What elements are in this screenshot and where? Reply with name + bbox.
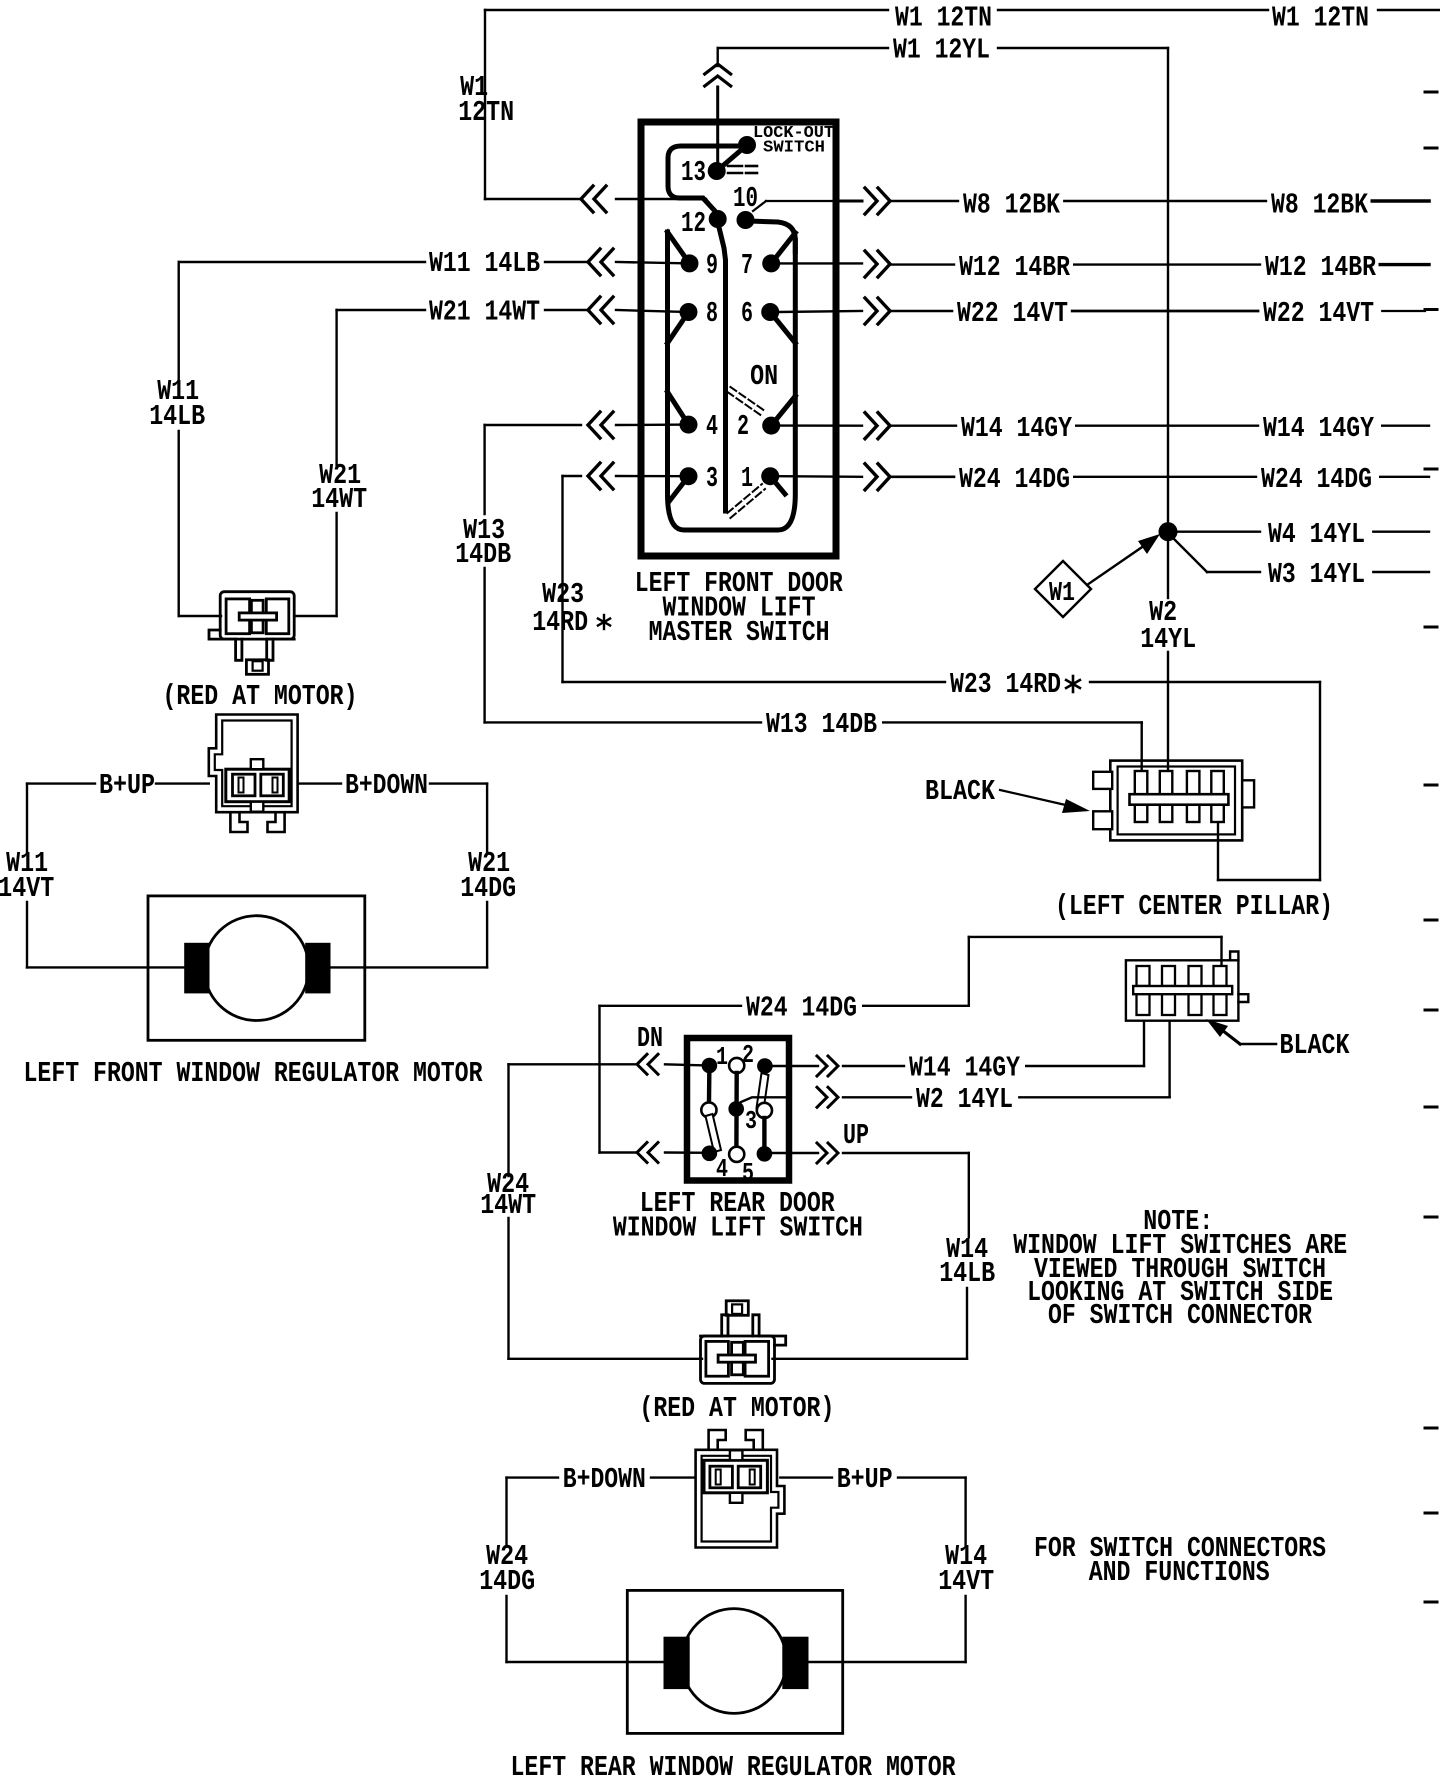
trace pin12 down middle divider	[718, 222, 726, 511]
wire row pin8 into switch	[616, 310, 689, 312]
note text block	[1013, 1205, 1347, 1332]
pin 4	[668, 392, 719, 443]
svg-text:W2 14YL: W2 14YL	[916, 1083, 1013, 1116]
svg-text:DN: DN	[637, 1022, 663, 1055]
wire B+DOWN	[300, 769, 487, 802]
svg-text:BLACK: BLACK	[1280, 1029, 1350, 1062]
wire W22 14VT row pin6	[779, 297, 1425, 330]
svg-text:4: 4	[706, 410, 718, 443]
connector C1 red at motor (front)	[209, 592, 294, 675]
wire W23 14RD*	[563, 463, 1321, 880]
svg-text:W8 12BK: W8 12BK	[1271, 189, 1368, 222]
lock-out switch	[717, 124, 834, 171]
racetrack left trace	[668, 232, 796, 530]
svg-text:W1 12TN: W1 12TN	[1272, 2, 1369, 35]
pin 6	[741, 297, 795, 343]
wire W24 14DG rear	[600, 937, 1222, 1153]
label DN	[637, 1022, 663, 1055]
rear pin 2	[729, 1040, 773, 1074]
caption red at motor (front)	[163, 680, 358, 713]
svg-text:1: 1	[716, 1042, 728, 1072]
svg-text:W22 14VT: W22 14VT	[957, 297, 1068, 330]
connector arrow >> rear UP	[817, 1143, 838, 1163]
wire W14 14VT vertical rear	[808, 1478, 966, 1662]
svg-text:12: 12	[681, 207, 706, 240]
svg-text:W1 12YL: W1 12YL	[893, 34, 990, 67]
svg-text:14LB: 14LB	[939, 1257, 995, 1290]
label W2 14YL	[1140, 596, 1196, 656]
label W24 14WT vertical	[480, 1168, 536, 1222]
pin 9	[668, 232, 719, 282]
rear pin 3	[745, 1103, 772, 1162]
trace pin13 loop to pin12	[668, 146, 740, 214]
svg-text:W8 12BK: W8 12BK	[963, 189, 1060, 222]
svg-text:4: 4	[716, 1154, 728, 1184]
connector arrow >> rear row1	[817, 1056, 838, 1076]
wire rear row1 out	[772, 1065, 818, 1067]
svg-text:AND FUNCTIONS: AND FUNCTIONS	[1089, 1556, 1270, 1589]
connector C6 B+ (rear)	[696, 1430, 785, 1548]
svg-text:14VT: 14VT	[938, 1565, 994, 1598]
connector C3 left center pillar	[1093, 761, 1254, 841]
motor M2 left rear window regulator	[627, 1590, 842, 1733]
svg-text:W11 14LB: W11 14LB	[429, 247, 540, 280]
svg-text:W14 14GY: W14 14GY	[961, 412, 1072, 445]
label W1 12TN vertical	[458, 71, 514, 129]
wire trunk W2 down right side	[1167, 48, 1169, 778]
pin 1	[741, 462, 785, 495]
rear bar pin1-down	[701, 1066, 716, 1118]
wire W3 14YL	[1173, 538, 1429, 591]
pin 7	[741, 233, 795, 282]
lock-out contact marks	[728, 166, 757, 173]
wire W24 14DG vertical rear	[507, 1478, 665, 1662]
caption left rear window regulator motor	[511, 1751, 956, 1782]
wire B+UP rear	[780, 1463, 965, 1496]
svg-text:8: 8	[706, 297, 718, 330]
wire pin10 to W8	[753, 201, 839, 211]
wire break chevrons	[705, 64, 731, 86]
svg-text:14VT: 14VT	[0, 872, 54, 905]
wire into rear pin4	[665, 1151, 709, 1154]
svg-text:2: 2	[737, 410, 749, 443]
wire W2 inside rear switch	[741, 1097, 789, 1102]
wire W21 vertical	[294, 310, 336, 616]
label W23 14RD* vertical	[532, 578, 610, 639]
svg-text:3: 3	[706, 462, 718, 495]
wire W2 14YL rear	[843, 1021, 1170, 1116]
wire into rear pin1	[665, 1064, 709, 1065]
connector arrow << rear row1	[637, 1054, 658, 1074]
rear pin 1	[702, 1042, 728, 1073]
svg-text:SWITCH: SWITCH	[763, 139, 825, 158]
wire W14 14GY row pin2	[780, 412, 1429, 445]
label W21 14DG vertical	[460, 847, 516, 905]
pin 3	[669, 462, 718, 502]
svg-text:(RED AT MOTOR): (RED AT MOTOR)	[639, 1392, 834, 1425]
caption left front window regulator motor	[24, 1057, 483, 1090]
arrow W1 diamond to junction	[1087, 534, 1160, 585]
connector arrow << rear row4	[637, 1143, 658, 1163]
svg-text:W3 14YL: W3 14YL	[1268, 558, 1365, 591]
caption left center pillar	[1055, 890, 1333, 923]
pin 8	[668, 297, 719, 343]
rear bar pin2-down	[728, 1073, 754, 1188]
wire W1 12TN	[485, 2, 1440, 200]
pin 12	[681, 207, 727, 240]
caption rear switch	[613, 1187, 863, 1245]
label W13 14DB vertical	[455, 514, 511, 571]
svg-text:14WT: 14WT	[480, 1189, 536, 1222]
pin 10	[733, 182, 758, 229]
wire W4 14YL	[1177, 518, 1429, 551]
svg-text:W14 14GY: W14 14GY	[1263, 412, 1374, 445]
wire W24 14WT	[509, 1064, 703, 1359]
connector arrow >> rear W2	[817, 1087, 838, 1107]
label W11 14VT vertical	[0, 847, 54, 905]
rear pin 4	[702, 1146, 728, 1185]
svg-text:9: 9	[706, 249, 718, 282]
wire W1 12YL	[718, 34, 1168, 172]
junction node W2/W4/W3	[1159, 522, 1178, 541]
svg-text:13: 13	[681, 156, 706, 189]
wire W21 14WT	[337, 296, 588, 329]
label W24 14DG vertical rear	[479, 1540, 535, 1598]
svg-text:7: 7	[741, 249, 753, 282]
actuator dashed link pin2	[727, 387, 765, 416]
label ON	[750, 360, 778, 393]
svg-text:OF SWITCH CONNECTOR: OF SWITCH CONNECTOR	[1048, 1299, 1312, 1332]
label W11 14LB vertical	[149, 375, 205, 433]
motor M1 left front window regulator	[148, 896, 365, 1040]
svg-text:WINDOW LIFT SWITCH: WINDOW LIFT SWITCH	[613, 1212, 863, 1245]
svg-text:ON: ON	[750, 360, 778, 393]
wire W8 12BK	[839, 188, 1429, 222]
W1 splice diamond	[1035, 561, 1091, 617]
svg-text:2: 2	[742, 1040, 754, 1070]
pin 2	[737, 396, 795, 443]
svg-text:W13 14DB: W13 14DB	[766, 708, 877, 741]
svg-text:W24 14DG: W24 14DG	[1261, 463, 1372, 496]
wire W11 vertical	[179, 262, 221, 616]
svg-text:MASTER SWITCH: MASTER SWITCH	[649, 616, 830, 649]
svg-text:UP: UP	[843, 1119, 869, 1152]
svg-text:W14 14GY: W14 14GY	[909, 1052, 1020, 1085]
wire W1 12TN into switch	[616, 199, 717, 212]
caption master switch	[635, 567, 843, 649]
svg-text:W12 14BR: W12 14BR	[959, 251, 1070, 284]
rear actuator outline pin4	[706, 1114, 722, 1152]
svg-text:14DB: 14DB	[455, 538, 511, 571]
wire row pin9 into switch	[616, 262, 690, 263]
wire B+UP	[27, 769, 209, 802]
svg-text:14YL: 14YL	[1140, 623, 1196, 656]
svg-text:W1: W1	[1049, 579, 1075, 609]
caption red at motor (rear)	[639, 1392, 834, 1425]
wire W11 14LB	[179, 247, 588, 280]
svg-text:LEFT REAR WINDOW REGULATOR MOT: LEFT REAR WINDOW REGULATOR MOTOR	[511, 1751, 956, 1782]
connector C2 B+ (front)	[209, 715, 298, 833]
svg-text:B+UP: B+UP	[837, 1463, 893, 1496]
master switch LEFT FRONT DOOR WINDOW LIFT MASTER SWITCH box	[641, 122, 836, 556]
svg-text:B+UP: B+UP	[99, 769, 155, 802]
label W14 14LB vertical	[939, 1233, 995, 1290]
label W14 14VT vertical rear	[938, 1540, 994, 1598]
svg-text:14DG: 14DG	[479, 1565, 535, 1598]
svg-text:14DG: 14DG	[460, 872, 516, 905]
connector C4 rear black	[1126, 952, 1248, 1021]
trace pin10 to right track	[748, 221, 795, 252]
label UP	[843, 1119, 869, 1152]
label W21 14WT vertical	[311, 459, 367, 516]
svg-text:W22 14VT: W22 14VT	[1263, 297, 1374, 330]
connector arrow << row pin8	[588, 297, 613, 323]
svg-text:W12 14BR: W12 14BR	[1265, 251, 1376, 284]
wire W21 14DG vertical	[330, 784, 487, 968]
wire W14 14GY rear	[843, 1021, 1144, 1085]
svg-text:LEFT FRONT WINDOW REGULATOR MO: LEFT FRONT WINDOW REGULATOR MOTOR	[24, 1057, 483, 1090]
wire W14 14LB	[773, 1153, 969, 1359]
wire W24 14DG row pin1	[779, 463, 1429, 496]
svg-text:14LB: 14LB	[149, 400, 205, 433]
svg-text:W4 14YL: W4 14YL	[1268, 518, 1365, 551]
for switch connectors text	[1034, 1532, 1326, 1589]
connector arrow << W1 12TN	[581, 186, 606, 212]
svg-text:(RED AT MOTOR): (RED AT MOTOR)	[163, 680, 358, 713]
svg-text:6: 6	[741, 297, 753, 330]
connector arrow << row pin9	[588, 249, 613, 275]
pin 13	[681, 156, 726, 189]
svg-text:5: 5	[742, 1158, 754, 1188]
svg-text:3: 3	[745, 1106, 757, 1136]
svg-text:W1 12TN: W1 12TN	[895, 2, 992, 35]
svg-text:12TN: 12TN	[458, 96, 514, 129]
label BLACK (pillar)	[925, 775, 1090, 813]
svg-text:B+DOWN: B+DOWN	[563, 1463, 646, 1496]
svg-text:14RD: 14RD	[532, 606, 588, 639]
svg-text:B+DOWN: B+DOWN	[345, 769, 428, 802]
wire B+DOWN rear	[507, 1463, 694, 1496]
svg-text:14WT: 14WT	[311, 483, 367, 516]
svg-text:1: 1	[741, 462, 753, 495]
wire W12 14BR row pin7	[780, 251, 1429, 284]
svg-text:BLACK: BLACK	[925, 775, 995, 808]
svg-text:W24 14DG: W24 14DG	[746, 992, 857, 1025]
wire W13 14DB	[485, 412, 1142, 779]
svg-text:W21 14WT: W21 14WT	[429, 296, 540, 329]
connector C5 red at motor (rear)	[701, 1301, 786, 1384]
svg-text:W24 14DG: W24 14DG	[959, 463, 1070, 496]
rear switch LEFT REAR DOOR WINDOW LIFT SWITCH box	[687, 1038, 789, 1181]
wire rear row4 out	[772, 1152, 818, 1154]
rear actuator outline pin3	[757, 1073, 769, 1110]
svg-text:(LEFT CENTER PILLAR): (LEFT CENTER PILLAR)	[1055, 890, 1333, 923]
actuator dashed link pin1	[727, 484, 765, 518]
label BLACK (rear)	[1206, 1019, 1350, 1062]
svg-text:W23 14RD: W23 14RD	[950, 668, 1061, 701]
wire W11 14VT vertical	[27, 784, 185, 968]
